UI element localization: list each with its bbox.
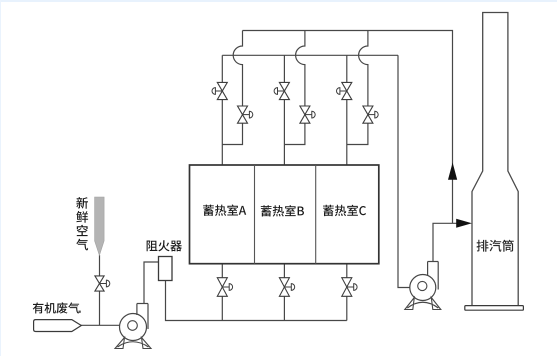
valve: chamber A bottom (actuator right)	[217, 278, 227, 297]
valve: chamber C bottom (actuator right)	[342, 278, 352, 297]
valve: chamber B bottom (actuator right)	[279, 278, 289, 297]
label 蓄热室C	[323, 205, 366, 216]
valve: chamber C inlet (left, actuator left)	[342, 82, 352, 99]
valve: chamber A inlet (left, actuator left)	[217, 82, 227, 99]
wire: bottom waste-gas manifold	[166, 281, 347, 321]
partition B/C	[315, 165, 317, 264]
flow arrow up (to stack riser)	[448, 163, 457, 180]
wire: chamber B exhaust branch with crossing hop	[284, 31, 305, 145]
valve: fresh air	[95, 276, 104, 291]
valve: chamber C exhaust (right, actuator right)	[363, 106, 373, 123]
page top light-blue border	[0, 0, 557, 2]
label 新鲜空气 (vertical)	[76, 197, 88, 250]
page left light-blue border	[0, 0, 1, 356]
valve: chamber B exhaust (right, actuator right)	[300, 106, 310, 123]
punctuation dot after 有机废气	[79, 311, 81, 313]
wire: waste gas line to left fan	[81, 324, 128, 326]
wire: chamber C bottom drop	[346, 264, 348, 321]
flame arrester box	[159, 257, 173, 281]
RTO chamber box	[190, 165, 379, 264]
wire: second manifold (fresh air purge header)	[222, 54, 398, 56]
waste gas inlet arrow (outline)	[34, 320, 82, 332]
label 蓄热室A	[203, 205, 246, 216]
right centrifugal fan	[410, 275, 436, 301]
wire: chamber C exhaust branch with crossing hop	[347, 31, 368, 145]
wire: fresh air line	[99, 255, 101, 325]
wire: chamber A bottom drop	[221, 264, 223, 321]
label 阻火器	[147, 240, 182, 251]
left centrifugal fan	[120, 314, 147, 341]
wire: chamber A inlet branch to chamber top	[221, 55, 223, 165]
wire: right fan riser to stack	[433, 223, 457, 261]
wire: purge header drop to right fan inlet	[398, 55, 418, 287]
label 排汽筒	[477, 240, 514, 252]
exhaust stack body	[472, 13, 518, 306]
fresh air arrow (gray)	[95, 197, 105, 255]
label 有机废气	[33, 302, 80, 313]
wire: chamber C inlet branch to chamber top	[346, 55, 348, 165]
wire: chamber B bottom drop	[283, 264, 285, 321]
wire: chamber B inlet branch to chamber top	[283, 55, 285, 165]
label 蓄热室B	[261, 205, 304, 216]
partition A/B	[254, 165, 256, 264]
wire: top exhaust manifold	[243, 31, 453, 224]
stack base flange	[465, 306, 524, 311]
valve: chamber B inlet (left, actuator left)	[279, 82, 289, 99]
valve: chamber A exhaust (right, actuator right)	[238, 106, 248, 123]
wire: flame arrester to left fan outlet	[144, 262, 159, 304]
wire: chamber A exhaust branch with crossing hop	[222, 31, 242, 145]
flow arrow right into stack	[456, 219, 472, 228]
